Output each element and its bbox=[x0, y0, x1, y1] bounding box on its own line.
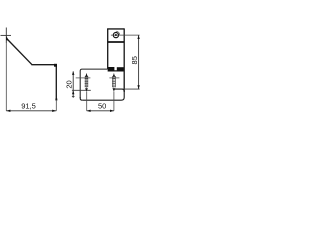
stud left bbox=[85, 76, 88, 87]
dimension 50 right arrow bbox=[110, 110, 114, 112]
stud left centerline bbox=[86, 73, 88, 88]
wire stud right rungs bbox=[112, 78, 115, 80]
svg-text:20: 20 bbox=[65, 80, 74, 88]
dimension 20 vertical line bbox=[72, 71, 74, 98]
wire horizontal arm bbox=[31, 64, 56, 66]
hole circle bbox=[113, 33, 118, 38]
node dark bar at box corner left bbox=[108, 67, 115, 72]
centerline horizontal right boss bbox=[109, 77, 119, 79]
wire divider line bbox=[108, 41, 125, 43]
stud right top point bbox=[113, 74, 116, 77]
wire box left edge bbox=[107, 29, 109, 69]
right view main narrow box bbox=[107, 28, 124, 92]
wire step line y69 with rounded corner into plate left edge bbox=[80, 69, 108, 98]
wire end flange vertical bbox=[55, 64, 57, 100]
dimension 85 bottom arrow bbox=[137, 85, 139, 89]
svg-text:91,5: 91,5 bbox=[21, 102, 36, 111]
wire stud left extension down bbox=[86, 91, 88, 110]
wire stud left rungs bbox=[85, 78, 88, 80]
dimension 85 top arrow bbox=[137, 35, 139, 39]
dimension 50 left arrow bbox=[87, 110, 91, 112]
stud right bbox=[112, 76, 115, 87]
wire extension line left bbox=[5, 43, 7, 111]
wire stud right rails bbox=[112, 76, 114, 87]
node cross arrow blob bbox=[6, 36, 9, 41]
dimension 85 vertical line bbox=[138, 35, 140, 89]
wire diagonal arm bbox=[7, 39, 32, 65]
node flange bottom blob bbox=[55, 99, 57, 101]
dimension 20 top arrow bbox=[72, 71, 74, 75]
node dark bar at box corner right bbox=[117, 67, 124, 71]
left view bracket profile bbox=[7, 39, 56, 100]
dimension 91,5 right arrow bbox=[52, 110, 56, 112]
wire stud right extension down bbox=[113, 91, 115, 110]
dimension 50 line bbox=[87, 110, 114, 112]
wire extension line right flange bbox=[55, 100, 57, 111]
dimension 91,5 line bbox=[6, 110, 56, 112]
stud right bottom point bbox=[113, 88, 116, 91]
node corner blob bbox=[54, 64, 57, 67]
centerline horizontal left boss bbox=[76, 77, 91, 79]
svg-text:50: 50 bbox=[98, 102, 106, 111]
dimension 20 bottom arrow bbox=[72, 90, 74, 94]
svg-text:85: 85 bbox=[130, 56, 139, 64]
stud left top point bbox=[85, 74, 88, 77]
wire plate bottom and right edge bbox=[82, 89, 124, 100]
wire box right edge bbox=[123, 28, 125, 92]
wire stud left rails bbox=[84, 76, 86, 87]
wire box bottom edge y71 bbox=[108, 70, 125, 72]
wire plate left bottom corner bbox=[80, 97, 82, 100]
wire box top edge bbox=[107, 28, 124, 30]
dimension 20 T bar bottom bbox=[72, 95, 75, 97]
dimension 91,5 left arrow bbox=[6, 110, 10, 112]
stud right centerline bbox=[113, 73, 115, 88]
plate top edge left segment bbox=[72, 89, 91, 91]
hole center dot bbox=[115, 34, 117, 36]
stud left bottom point bbox=[85, 88, 88, 91]
hole outer thread arc bbox=[116, 31, 120, 35]
node cross marker top-left bbox=[1, 28, 12, 44]
plate top edge right segment and 85 extension bbox=[114, 88, 139, 90]
hole centerline horizontal to 85 dim bbox=[111, 34, 140, 36]
